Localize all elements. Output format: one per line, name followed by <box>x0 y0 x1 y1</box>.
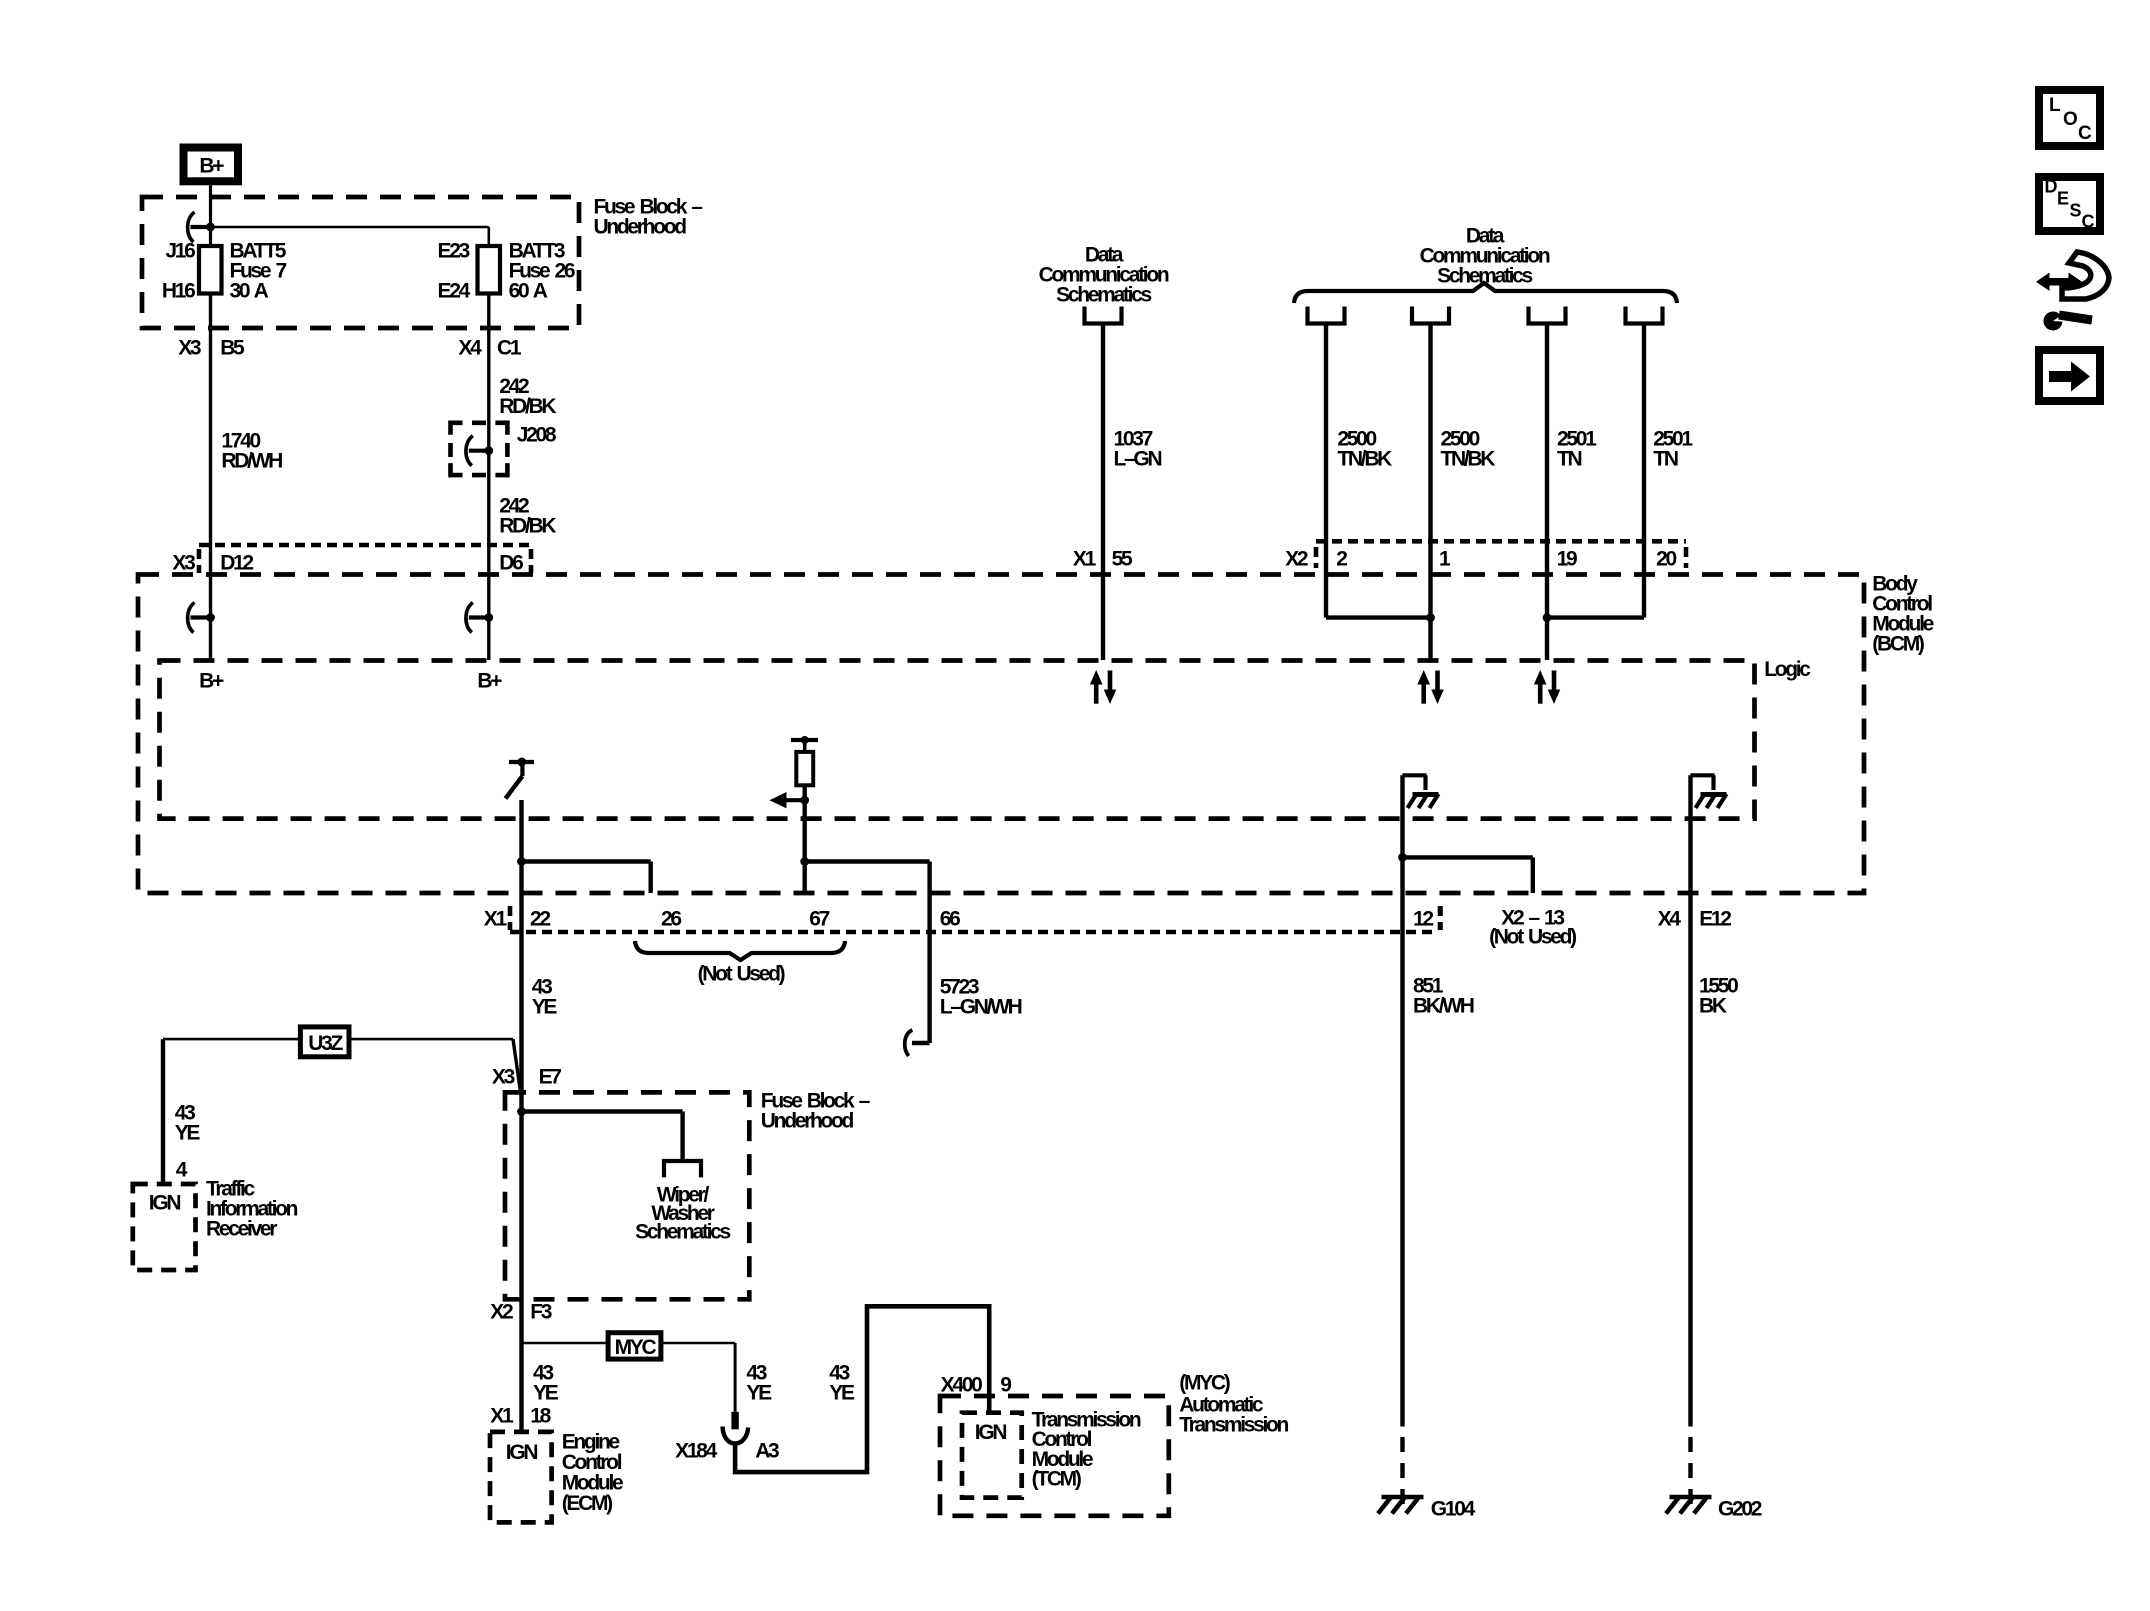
wire switch output <box>519 800 523 932</box>
svg-text:YE: YE <box>746 1381 772 1404</box>
svg-text:X400: X400 <box>941 1373 982 1396</box>
fuse BATT5 value label <box>230 239 287 302</box>
wire label 43 YE before TCM <box>829 1361 855 1404</box>
wire label 1037 L-GN <box>1114 427 1162 470</box>
svg-text:B+: B+ <box>199 669 224 692</box>
svg-text:IGN: IGN <box>506 1441 538 1464</box>
svg-text:YE: YE <box>533 1381 559 1404</box>
svg-text:D6: D6 <box>499 552 523 575</box>
wire 2500 TN/BK second <box>1428 324 1432 661</box>
switch blade <box>506 776 523 799</box>
svg-text:E24: E24 <box>438 279 471 302</box>
connector cup terminal 2500 second <box>1412 307 1449 324</box>
svg-text:RD/WH: RD/WH <box>221 449 282 472</box>
fuse block underhood box (lower) <box>505 1092 749 1299</box>
pin label X400 9 <box>941 1373 1012 1396</box>
junction dot resistor output <box>800 857 809 866</box>
wire label 1740 RD/WH <box>221 429 282 472</box>
wire label 2500 TN/BK second <box>1441 427 1496 470</box>
pin label X1 55 <box>1073 547 1133 570</box>
svg-text:YE: YE <box>532 995 558 1018</box>
wiper washer schematics label <box>635 1183 730 1243</box>
pin label X2 2 <box>1285 547 1347 570</box>
svg-text:(Not Used): (Not Used) <box>1489 925 1576 948</box>
transmission control module label <box>1032 1408 1141 1490</box>
label not used <box>698 962 785 985</box>
legend icon double arrow with wrench <box>2036 252 2109 331</box>
wire MYC to X184 <box>661 1343 735 1412</box>
svg-text:Receiver: Receiver <box>206 1217 277 1240</box>
svg-text:55: 55 <box>1112 547 1133 570</box>
svg-text:(MYC): (MYC) <box>1179 1371 1229 1394</box>
pin label X3 B5 <box>178 336 245 359</box>
power symbol B+ terminal <box>184 148 239 182</box>
svg-text:TN: TN <box>1653 447 1678 470</box>
svg-text:TN/BK: TN/BK <box>1337 447 1392 470</box>
pin label 1 <box>1439 547 1451 570</box>
wire 5723 L-GN/WH <box>912 932 930 1043</box>
pin label 66 <box>940 907 960 930</box>
svg-text:Schematics: Schematics <box>1056 283 1151 306</box>
connector row X3 D12 D6 dotted strip <box>199 545 531 573</box>
wire 43 YE from A3 to TCM <box>735 1306 989 1472</box>
wire label 43 YE pin22 <box>532 975 558 1018</box>
svg-text:B+: B+ <box>199 154 224 177</box>
svg-text:YE: YE <box>829 1381 855 1404</box>
Body Control Module BCM box <box>138 575 1864 894</box>
junction dot pin 12 branch <box>1398 853 1407 862</box>
pin label X2 F3 <box>490 1300 551 1323</box>
svg-text:X3: X3 <box>172 552 195 575</box>
wire 2501 TN first <box>1545 324 1549 661</box>
svg-text:66: 66 <box>940 907 960 930</box>
wire label 2501 TN second <box>1653 427 1693 470</box>
svg-text:12: 12 <box>1413 907 1433 930</box>
svg-text:Logic: Logic <box>1764 658 1811 681</box>
splice J208 hook junction <box>466 436 493 466</box>
svg-text:B5: B5 <box>220 336 245 359</box>
pin label 26 <box>661 907 681 930</box>
pin label 67 <box>809 907 829 930</box>
svg-text:67: 67 <box>809 907 829 930</box>
legend icon right arrow <box>2039 350 2100 401</box>
svg-text:U3Z: U3Z <box>308 1032 343 1055</box>
node B+ label right <box>477 669 502 692</box>
label MYC automatic transmission <box>1179 1371 1288 1436</box>
svg-text:X3: X3 <box>492 1065 515 1088</box>
wire label 43 YE below F3 <box>533 1361 559 1404</box>
wire 43 YE to U3Z <box>163 1038 300 1041</box>
wire 2501 TN second <box>1642 324 1646 618</box>
svg-text:MYC: MYC <box>615 1336 657 1359</box>
svg-text:Schematics: Schematics <box>635 1220 730 1243</box>
svg-text:E23: E23 <box>438 239 470 262</box>
pin label X2 - 13 not used <box>1489 906 1576 948</box>
svg-text:Underhood: Underhood <box>761 1109 854 1132</box>
svg-text:G104: G104 <box>1431 1497 1476 1520</box>
wire label 1550 BK <box>1699 974 1738 1017</box>
wire branch to wiper fuse <box>522 1112 683 1162</box>
wire branch to pin 26 <box>522 862 651 894</box>
wire U3Z to E7 <box>349 1039 522 1099</box>
svg-text:X2: X2 <box>1285 547 1308 570</box>
svg-text:(BCM): (BCM) <box>1872 632 1924 655</box>
svg-text:Transmission: Transmission <box>1179 1413 1288 1436</box>
brace over data comm terminals <box>1294 283 1677 303</box>
svg-text:19: 19 <box>1557 547 1577 570</box>
connector cup terminal 2500 first <box>1308 307 1345 324</box>
terminal cup to wiper schematics <box>664 1161 701 1177</box>
traffic information receiver label <box>206 1177 298 1240</box>
wire 1550 BK inside BCM <box>1688 775 1692 1426</box>
wire label 851 BK/WH <box>1413 974 1474 1017</box>
pin label 20 <box>1656 547 1676 570</box>
fuse BATT5 Fuse 7 30A <box>199 246 222 294</box>
svg-text:X1: X1 <box>1073 547 1097 570</box>
svg-text:60 A: 60 A <box>509 279 548 302</box>
svg-text:(Not Used): (Not Used) <box>698 962 785 985</box>
wire branch to pin 66 <box>805 862 930 933</box>
wire 242 RD/BK upper <box>487 294 490 661</box>
pin label D6 <box>499 552 523 575</box>
engine control module box <box>490 1432 552 1523</box>
svg-text:X184: X184 <box>675 1439 717 1462</box>
svg-text:A3: A3 <box>755 1439 779 1462</box>
component code U3Z box <box>300 1027 349 1057</box>
Logic label <box>1764 658 1811 681</box>
ground pin 12 symbol <box>1403 775 1439 808</box>
splice hook at BCM pin D12 <box>188 603 215 633</box>
splice label J208 <box>517 424 557 447</box>
svg-text:BK/WH: BK/WH <box>1413 994 1474 1017</box>
legend icon LOC <box>2039 90 2100 146</box>
junction dot wiper branch <box>517 1107 526 1116</box>
connector strip X2 dotted <box>1316 541 1686 568</box>
svg-text:20: 20 <box>1656 547 1676 570</box>
svg-text:X4: X4 <box>1658 907 1682 930</box>
wire B+ feed to fuse BATT3 <box>211 227 489 246</box>
svg-text:BK: BK <box>1699 994 1727 1017</box>
svg-text:L–GN: L–GN <box>1114 447 1162 470</box>
fuse BATT5 pin labels J16 H16 <box>162 239 195 302</box>
wire 1037 L-GN <box>1101 324 1105 661</box>
connector cup terminal 1037 <box>1085 307 1122 324</box>
wire 1550 dashed to ground <box>1688 1437 1692 1505</box>
svg-text:TN/BK: TN/BK <box>1441 447 1496 470</box>
resistor top bar <box>791 736 818 744</box>
svg-text:B+: B+ <box>477 669 502 692</box>
svg-text:TN: TN <box>1557 447 1582 470</box>
svg-text:RD/BK: RD/BK <box>499 514 556 537</box>
svg-text:X4: X4 <box>458 336 482 359</box>
svg-text:22: 22 <box>530 907 550 930</box>
svg-text:L–GN/WH: L–GN/WH <box>940 995 1022 1018</box>
splice hook junction at fuse block feed <box>188 212 215 242</box>
brace not used pins 26 67 <box>635 941 845 960</box>
component code MYC box <box>608 1333 661 1359</box>
arrow pair BCM pin 19 <box>1534 670 1560 704</box>
connector label X184 A3 <box>675 1439 779 1462</box>
svg-text:E7: E7 <box>539 1065 562 1088</box>
switch stub <box>520 762 524 776</box>
svg-text:(ECM): (ECM) <box>562 1492 612 1515</box>
splice hook at BCM pin D6 <box>466 603 493 633</box>
svg-text:H16: H16 <box>162 279 195 302</box>
svg-text:IGN: IGN <box>975 1421 1007 1444</box>
wire 1740 RD/WH <box>209 294 212 661</box>
fuse BATT3 Fuse 26 60A <box>478 246 501 294</box>
svg-text:E12: E12 <box>1699 907 1731 930</box>
resistor body <box>796 740 813 785</box>
arrow left at resistor <box>770 792 810 808</box>
svg-text:Underhood: Underhood <box>594 215 687 238</box>
fuse block underhood box (top) <box>142 197 579 328</box>
transmission control module outer box <box>940 1396 1169 1516</box>
wire label 43 YE after MYC <box>746 1361 772 1404</box>
connector cup terminal 2501 second <box>1626 307 1663 324</box>
fuse BATT3 pin labels E23 E24 <box>438 239 471 302</box>
fuse block underhood label (top) <box>594 195 704 238</box>
wire 851 BK/WH inside BCM <box>1400 775 1404 1426</box>
svg-text:X3: X3 <box>178 336 201 359</box>
pin label X3 D12 <box>172 552 253 575</box>
svg-text:2: 2 <box>1336 547 1347 570</box>
svg-text:G202: G202 <box>1718 1497 1762 1520</box>
svg-text:X1: X1 <box>484 907 508 930</box>
engine control module label <box>562 1430 623 1515</box>
Logic box <box>160 661 1755 819</box>
wire label 5723 L-GN/WH <box>940 975 1022 1018</box>
svg-text:18: 18 <box>530 1404 551 1427</box>
traffic information receiver box <box>133 1184 196 1270</box>
svg-text:RD/BK: RD/BK <box>499 395 556 418</box>
wire branch to X2-13 <box>1403 857 1533 893</box>
arrow pair BCM pin 1 <box>1417 670 1443 704</box>
switch contact bar <box>509 758 534 767</box>
pin label X4 E12 <box>1658 907 1732 930</box>
connector cup terminal 2501 first <box>1529 307 1566 324</box>
junction dot switch output <box>517 857 526 866</box>
svg-text:C1: C1 <box>497 336 522 359</box>
connector X184 inline <box>723 1412 749 1444</box>
svg-text:(TCM): (TCM) <box>1032 1468 1081 1491</box>
pin label X3 E7 <box>492 1065 561 1088</box>
resistor output wire <box>803 785 807 893</box>
ground G202 <box>1666 1497 1762 1520</box>
pin label 4 <box>176 1158 188 1181</box>
svg-text:J16: J16 <box>165 239 195 262</box>
wire 851 dashed to ground <box>1400 1437 1404 1505</box>
data comm schematics label right <box>1420 224 1550 287</box>
legend icon DESC <box>2039 177 2100 232</box>
pin label X1 18 <box>490 1404 551 1427</box>
svg-text:YE: YE <box>175 1121 201 1144</box>
node B+ label left <box>199 669 224 692</box>
wire 43 YE main vertical <box>519 932 523 1432</box>
pin label 19 <box>1557 547 1577 570</box>
wire label 242 RD/BK upper <box>499 375 556 418</box>
BCM label <box>1872 572 1933 655</box>
pin function label IGN ECM <box>506 1441 538 1464</box>
ground pin E12 symbol <box>1691 775 1727 808</box>
wire 2500 TN/BK first <box>1324 324 1328 618</box>
svg-text:30 A: 30 A <box>230 279 269 302</box>
svg-text:F3: F3 <box>530 1300 552 1323</box>
splice J208 box <box>451 423 508 475</box>
wire label 242 RD/BK lower <box>499 494 556 537</box>
svg-text:X1: X1 <box>490 1404 514 1427</box>
ground G104 <box>1378 1497 1476 1520</box>
wire label 2501 TN first <box>1557 427 1597 470</box>
junction wire 19 to wire 20 <box>1543 613 1644 622</box>
connector strip X1 dotted <box>510 906 1440 932</box>
arrow pair BCM pin 55 <box>1090 670 1116 704</box>
data comm schematics label left <box>1039 243 1169 306</box>
wire 43 YE to MYC <box>522 1342 606 1345</box>
fuse block underhood label (lower) <box>761 1089 871 1132</box>
hook end of wire 5723 <box>905 1030 913 1056</box>
svg-text:IGN: IGN <box>149 1191 181 1214</box>
wire label 2500 TN/BK first <box>1337 427 1392 470</box>
wire 43 YE to traffic receiver <box>161 1039 165 1184</box>
svg-text:O: O <box>2063 109 2077 130</box>
svg-text:D12: D12 <box>220 552 253 575</box>
svg-text:26: 26 <box>661 907 681 930</box>
pin label 12 <box>1413 906 1441 930</box>
junction wire 2 to wire 1 <box>1326 613 1435 622</box>
transmission control module inner box <box>962 1413 1022 1498</box>
pin label X1 22 <box>484 907 551 930</box>
fuse BATT3 value label <box>509 239 575 302</box>
pin function label IGN TCM <box>975 1421 1007 1444</box>
pin label X4 C1 <box>458 336 521 359</box>
svg-text:X2: X2 <box>490 1300 513 1323</box>
wire B+ to fuse BATT5 <box>209 185 212 246</box>
wire label 43 YE receiver <box>175 1101 201 1144</box>
pin function label IGN receiver <box>149 1191 181 1214</box>
svg-text:9: 9 <box>1000 1373 1011 1396</box>
svg-text:J208: J208 <box>517 424 557 447</box>
